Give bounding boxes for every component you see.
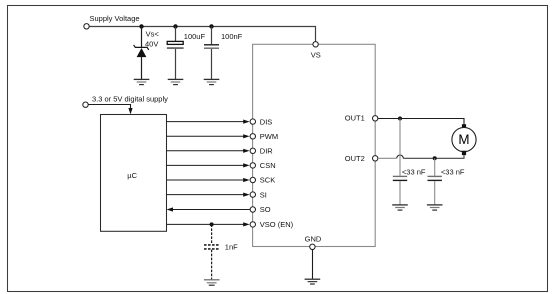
capacitor C2 100nF (204, 27, 219, 80)
wire PWM (to IC) (167, 134, 250, 138)
svg-text:<33 nF: <33 nF (402, 167, 426, 176)
junction on rail (zener) (139, 24, 143, 28)
svg-text:µC: µC (127, 171, 137, 180)
wire VSOEN (to IC) (167, 222, 250, 226)
pin CSN (250, 163, 255, 168)
svg-text:OUT1: OUT1 (345, 114, 365, 123)
svg-text:OUT2: OUT2 (345, 154, 365, 163)
pin SO (250, 207, 255, 212)
pin PWM (250, 134, 255, 139)
ground (C2) (204, 79, 220, 84)
microcontroller block uC (101, 115, 167, 232)
svg-text:DIS: DIS (260, 117, 273, 126)
junction on OUT1 (C3 tap) (398, 117, 402, 121)
svg-text:1nF: 1nF (225, 243, 238, 252)
wire motor to OUT2 (right part) (403, 155, 464, 158)
ground (C3) (392, 205, 408, 210)
wire OUT2 (pin side) (378, 157, 397, 159)
wire supply rail to VS (89, 27, 315, 42)
pin VS (313, 42, 318, 47)
svg-text:CSN: CSN (260, 161, 276, 170)
zener diode D1 (134, 27, 149, 80)
op-amp/driver IC U1 (bridge driver) (253, 44, 376, 246)
svg-text:GND: GND (305, 235, 322, 244)
svg-text:3.3 or 5V digital supply: 3.3 or 5V digital supply (92, 95, 168, 104)
ground (GND pin) (305, 279, 321, 284)
pin SCK (250, 177, 255, 182)
svg-text:Supply Voltage: Supply Voltage (90, 14, 140, 23)
pin SI (250, 192, 255, 197)
capacitor C1 100uF (electrolytic) (167, 27, 184, 80)
capacitor C3 33nF (393, 119, 407, 205)
capacitor C5 1nF (optional, dashed) (204, 224, 219, 279)
wire GND to ground (312, 250, 314, 279)
motor M (452, 124, 476, 155)
terminal: Supply Voltage input node (84, 24, 89, 29)
wire SI (to IC) (167, 193, 250, 197)
pin DIR (250, 148, 255, 153)
svg-text:SCK: SCK (260, 176, 275, 185)
wire hop (OUT2 over C3 wire) (397, 155, 404, 158)
capacitor C4 33nF (428, 158, 442, 204)
wire SCK (to IC) (167, 178, 250, 182)
wire DIR (to IC) (167, 149, 250, 153)
wire DIS (to IC) (167, 120, 250, 124)
ground (C1) (168, 79, 184, 84)
svg-text:DIR: DIR (260, 147, 274, 156)
ground (zener) (134, 79, 150, 84)
ground (C4) (427, 205, 443, 210)
svg-text:40V: 40V (145, 39, 158, 48)
svg-text:PWM: PWM (260, 132, 278, 141)
ground (C5) (204, 280, 220, 285)
junction on VSO wire (1nF tap) (210, 222, 214, 226)
wire OUT1 to motor (378, 119, 464, 126)
wire digital supply into uC (88, 105, 130, 109)
pin OUT2 (373, 156, 378, 161)
svg-text:VSO (EN): VSO (EN) (260, 220, 294, 229)
svg-text:SO: SO (260, 205, 271, 214)
pin GND (310, 244, 315, 249)
svg-text:100nF: 100nF (221, 32, 243, 41)
svg-text:M: M (458, 132, 469, 147)
terminal: 3.3 or 5V digital supply node (83, 102, 88, 107)
pin VSOEN (250, 222, 255, 227)
svg-text:100uF: 100uF (184, 32, 206, 41)
svg-text:SI: SI (260, 190, 267, 199)
junction on rail (C2) (209, 24, 213, 28)
wire CSN (to IC) (167, 163, 250, 167)
svg-text:VS: VS (311, 50, 321, 59)
junction on rail (C1) (173, 24, 177, 28)
svg-text:<33 nF: <33 nF (441, 167, 465, 176)
pin OUT1 (373, 116, 378, 121)
wire SO (uC input) (167, 207, 250, 211)
svg-text:Vs<: Vs< (146, 30, 160, 39)
junction on OUT2 (C4 tap) (433, 156, 437, 160)
pin DIS (250, 119, 255, 124)
